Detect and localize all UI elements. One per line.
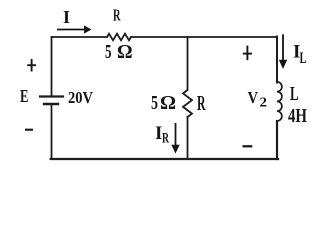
svg-text:E: E bbox=[20, 86, 29, 106]
svg-text:Ω: Ω bbox=[160, 92, 176, 114]
svg-text:R: R bbox=[197, 91, 206, 115]
svg-text:5: 5 bbox=[151, 92, 158, 114]
svg-text:I: I bbox=[63, 7, 70, 27]
svg-text:R: R bbox=[113, 5, 121, 24]
svg-text:V: V bbox=[248, 88, 259, 107]
svg-text:L: L bbox=[290, 83, 299, 105]
svg-text:Ω: Ω bbox=[117, 42, 133, 63]
svg-text:R: R bbox=[162, 130, 169, 146]
svg-text:5: 5 bbox=[105, 42, 112, 63]
svg-text:L: L bbox=[300, 50, 307, 67]
svg-text:4H: 4H bbox=[288, 105, 307, 127]
svg-text:20V: 20V bbox=[68, 88, 94, 107]
svg-text:2: 2 bbox=[260, 95, 268, 110]
